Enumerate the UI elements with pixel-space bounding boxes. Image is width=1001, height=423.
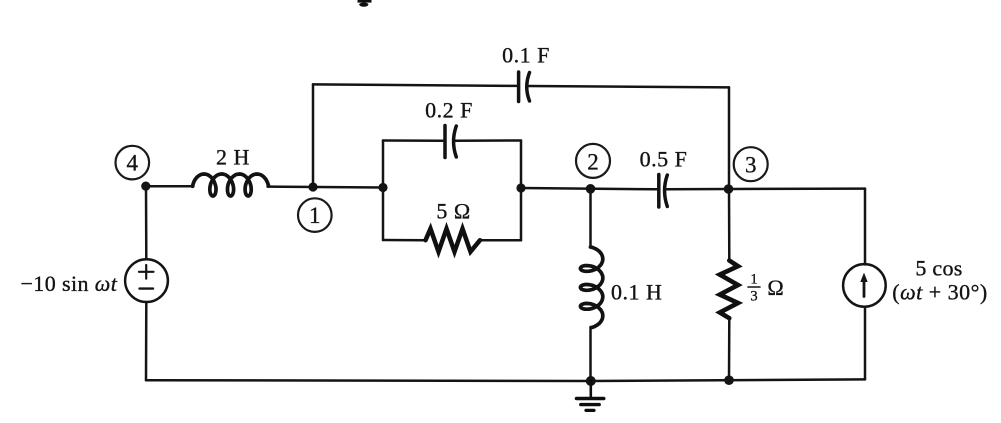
node 1 label (circled 1): [298, 198, 332, 232]
junction dot: box left on main wire: [378, 183, 387, 192]
node 2 label (circled 2): [576, 144, 610, 178]
node 3 junction dot: [724, 184, 734, 194]
resistor R 5 ohm: [426, 229, 481, 252]
wire: top branch right segment: [529, 86, 730, 87]
wire: node 4 down to voltage source: [145, 186, 148, 259]
wire: box bottom, right of resistor: [480, 239, 521, 242]
wire: top branch drop to node 3: [728, 87, 731, 189]
svg-text:3: 3: [750, 289, 757, 305]
wire: box bottom, left of 5-ohm resistor: [383, 239, 426, 242]
svg-text:4: 4: [127, 151, 139, 176]
wire: parallel box left side: [382, 141, 385, 241]
wire: 0.5F cap to node 3: [666, 188, 729, 191]
svg-text:(ωt + 30°): (ωt + 30°): [892, 280, 988, 305]
wire: 1/3-ohm resistor to bottom rail: [728, 318, 731, 380]
resistor R 1/3 ohm: [720, 261, 738, 319]
inductor L 2H: [193, 174, 269, 196]
node 4 label (circled 4): [116, 146, 150, 180]
wire: bottom rail: [146, 379, 865, 381]
voltage source V -10sin(wt): [125, 259, 168, 302]
junction dot: box right on main wire: [516, 183, 525, 192]
wire: inductor to box-left junction (through node 1): [268, 185, 384, 188]
svg-text:−10 sin ωt: −10 sin ωt: [21, 271, 118, 296]
ground symbol: [577, 381, 604, 410]
node 2 junction dot: [586, 184, 596, 194]
wire: node 3 to right branch corner: [729, 187, 865, 190]
ground junction dot: [586, 376, 596, 386]
wire: voltage source to bottom rail: [145, 302, 148, 380]
wire: parallel box right side: [520, 141, 523, 241]
svg-text:1: 1: [309, 203, 321, 228]
capacitor 0.5 F: [659, 175, 668, 208]
svg-text:5 cos: 5 cos: [915, 256, 962, 281]
capacitor 0.1 F: [519, 72, 530, 102]
wire: box top, right of 0.2F cap: [455, 139, 522, 142]
node 1 junction dot: [308, 182, 317, 191]
svg-text:0.1 H: 0.1 H: [611, 280, 662, 305]
node 4 junction dot: [141, 182, 150, 191]
wire: box top, left of 0.2F cap: [383, 139, 443, 142]
svg-text:0.1 F: 0.1 F: [502, 43, 550, 68]
label 1/3 ohm (fraction): [748, 272, 784, 305]
junction dot: node3 branch at bottom rail: [724, 375, 734, 385]
svg-text:3: 3: [745, 153, 757, 178]
current source I 5cos(wt+30): [843, 264, 886, 307]
artifact: cut-off mark at top edge: [358, 0, 372, 7]
wire: current source to bottom rail: [864, 307, 867, 380]
wire: node 1 riser to top branch: [312, 84, 315, 187]
wire: node4 to 2H inductor: [146, 185, 194, 188]
svg-text:Ω: Ω: [767, 275, 783, 300]
svg-text:2: 2: [587, 149, 599, 174]
node 3 label (circled 3): [734, 147, 768, 181]
svg-text:1: 1: [750, 272, 757, 288]
capacitor 0.2 F: [445, 126, 456, 158]
svg-text:0.5 F: 0.5 F: [640, 147, 688, 172]
inductor L 0.1H: [580, 247, 602, 328]
wire: 0.1H inductor to ground junction: [589, 327, 592, 381]
wire: node 2 down to 0.1H inductor: [589, 189, 592, 248]
svg-text:0.2 F: 0.2 F: [425, 98, 473, 123]
wire: right branch down to current source: [864, 189, 867, 265]
svg-text:5 Ω: 5 Ω: [436, 199, 470, 224]
wire: box right to 0.5F cap (through node 2): [521, 188, 657, 189]
svg-text:2 H: 2 H: [216, 145, 250, 170]
wire: node 3 down to 1/3-ohm resistor: [728, 189, 731, 261]
wire: top branch left segment: [313, 84, 518, 86]
